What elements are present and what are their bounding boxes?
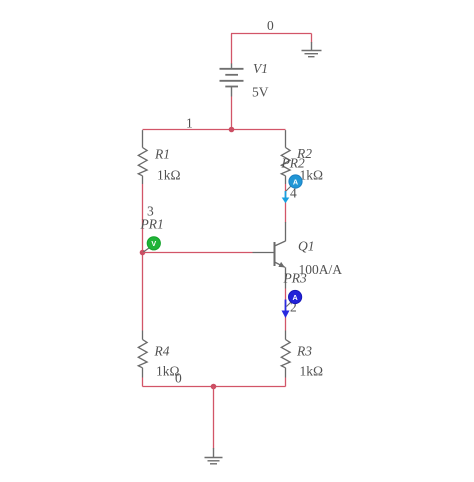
junction node 1 bbox=[229, 127, 235, 133]
svg-text:A: A bbox=[292, 293, 297, 302]
probe PR1 circle bbox=[147, 237, 160, 250]
junction node 3 bbox=[140, 250, 146, 256]
svg-text:Q1: Q1 bbox=[298, 239, 315, 254]
svg-text:0: 0 bbox=[175, 371, 182, 386]
svg-text:1kΩ: 1kΩ bbox=[300, 364, 324, 379]
probe PR2 pointer bbox=[286, 186, 291, 191]
svg-text:1kΩ: 1kΩ bbox=[157, 168, 181, 183]
wire top horizontal node 0 bbox=[231, 33, 312, 35]
svg-text:V1: V1 bbox=[253, 61, 268, 76]
probe PR2 circle bbox=[289, 175, 302, 188]
svg-text:PR3: PR3 bbox=[283, 271, 307, 286]
svg-text:PR2: PR2 bbox=[281, 156, 305, 171]
probe PR3 current arrow bbox=[285, 300, 287, 312]
svg-text:PR1: PR1 bbox=[140, 217, 164, 232]
ground (bottom) bbox=[205, 448, 223, 464]
wire R3 bottom bbox=[285, 378, 287, 387]
resistor R2 bbox=[281, 130, 290, 184]
svg-text:A: A bbox=[293, 177, 298, 186]
probe PR1 pointer bbox=[143, 248, 149, 252]
wire top ground drop bbox=[311, 34, 313, 43]
svg-text:R4: R4 bbox=[154, 344, 170, 359]
svg-text:V: V bbox=[151, 239, 156, 248]
wire bottom rail node 0 bbox=[143, 386, 286, 388]
probe PR2 current arrow bbox=[285, 191, 287, 198]
transistor Q1 bbox=[275, 222, 286, 289]
wire node 1 horizontal bbox=[143, 129, 286, 131]
wire battery top bbox=[231, 34, 233, 65]
svg-text:R3: R3 bbox=[296, 344, 312, 359]
resistor R4 bbox=[138, 331, 147, 378]
Q1 emitter arrowhead bbox=[278, 262, 285, 268]
svg-text:5V: 5V bbox=[252, 85, 269, 100]
ground (top) bbox=[302, 42, 322, 57]
probe PR3 pointer bbox=[287, 302, 292, 307]
svg-text:R1: R1 bbox=[154, 147, 170, 162]
resistor R1 bbox=[138, 130, 147, 184]
wire battery bottom to node 1 bbox=[231, 97, 233, 130]
svg-text:1: 1 bbox=[186, 116, 193, 131]
battery V1 bbox=[220, 64, 244, 97]
probe PR3 circle bbox=[289, 290, 302, 303]
wire R4 bottom bbox=[142, 378, 144, 387]
wire bottom ground drop bbox=[213, 387, 215, 449]
junction node 0 (bottom) bbox=[211, 384, 217, 390]
wire right rail R2 to Q1 collector bbox=[285, 184, 287, 223]
wire left rail bbox=[142, 184, 144, 331]
wire emitter to R3 bbox=[285, 289, 287, 331]
svg-text:0: 0 bbox=[267, 18, 274, 33]
wire base horizontal bbox=[143, 252, 253, 254]
wire base lead gray bbox=[253, 252, 275, 254]
resistor R3 bbox=[281, 331, 290, 378]
